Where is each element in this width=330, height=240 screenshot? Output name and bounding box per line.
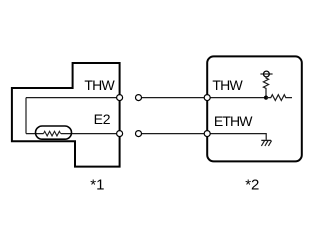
label *2 — [245, 176, 259, 193]
svg-text:THW: THW — [212, 77, 243, 93]
thermistor body (oval) — [36, 126, 72, 139]
power source terminal (circle with line) — [260, 71, 272, 77]
resistor (series, horizontal zigzag) — [266, 95, 292, 101]
junction node — [264, 96, 268, 100]
resistor R (pull-up, vertical zigzag) — [263, 77, 268, 98]
svg-text:E2: E2 — [94, 111, 111, 127]
wire: E2/ETHW harness wire — [139, 133, 208, 135]
terminal pin THW on sensor housing — [117, 95, 123, 101]
svg-text:ETHW: ETHW — [214, 113, 253, 129]
wire: THW harness wire — [139, 97, 208, 99]
connector/sensor housing *1 outline — [12, 63, 120, 167]
wire: THW trace inside unit — [207, 97, 266, 99]
wire: ETHW trace inside unit — [207, 134, 266, 140]
connector pin (E2 wire, left end) — [136, 131, 142, 137]
svg-text:THW: THW — [84, 77, 115, 93]
thermistor element (zigzag) — [44, 131, 61, 136]
label E2 — [94, 111, 111, 127]
label THW (left) — [84, 77, 115, 93]
svg-text:*2: *2 — [245, 176, 259, 193]
terminal pin E2 on sensor housing — [117, 131, 123, 137]
PCB unit *2 outline — [207, 56, 302, 161]
label THW (right) — [212, 77, 243, 93]
terminal pin THW on unit — [204, 95, 210, 101]
ground (signal ground symbol) — [261, 140, 271, 146]
wire: inner THW lead of sensor — [26, 97, 120, 99]
label ETHW — [214, 113, 253, 129]
wire: inner left vertical lead — [25, 98, 27, 134]
connector pin (THW wire, left end) — [136, 95, 142, 101]
wire: inner E2 lead of sensor — [26, 133, 120, 135]
label *1 — [90, 176, 104, 193]
terminal pin ETHW on unit — [204, 131, 210, 137]
svg-text:*1: *1 — [90, 176, 104, 193]
